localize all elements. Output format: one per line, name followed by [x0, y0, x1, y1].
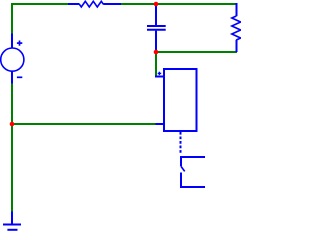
switch blade	[181, 167, 185, 172]
ground	[3, 212, 21, 230]
plus label of coil	[158, 72, 162, 75]
relay pin 1 (top left, +)	[155, 76, 164, 78]
switch pole drop	[180, 157, 182, 167]
minus label of V1	[17, 76, 22, 78]
relay coil K1 (box)	[164, 69, 197, 131]
plus label of V1	[17, 42, 22, 44]
switch terminal line bottom	[180, 186, 205, 188]
capacitor C1	[147, 5, 166, 51]
relay contact switch S1	[180, 157, 205, 187]
wire cap bottom down to relay pin 1	[155, 53, 157, 76]
wire top-left corner to R1	[12, 4, 68, 34]
wire left rail below source to ground	[11, 84, 13, 213]
junction dot node B (C1 bottom)	[154, 50, 159, 55]
junction dot node C (left rail)	[10, 122, 15, 127]
relay dashed link	[180, 132, 182, 153]
wire top horizontal (resistor R1 right to R2)	[121, 3, 236, 5]
resistor R2 (vertical, right)	[232, 3, 241, 52]
switch lower contact vertical	[180, 173, 182, 188]
voltage source V1	[1, 34, 24, 84]
wire node B horizontal (cap bottom to R2 bottom)	[156, 51, 237, 53]
resistor R1 (horizontal, top)	[68, 1, 121, 7]
switch terminal line top	[180, 156, 205, 158]
wire left junction to relay pin 2	[12, 123, 156, 125]
relay pin 2 (bottom left)	[156, 123, 165, 125]
junction dot node A (top, R1/C1)	[154, 2, 159, 7]
